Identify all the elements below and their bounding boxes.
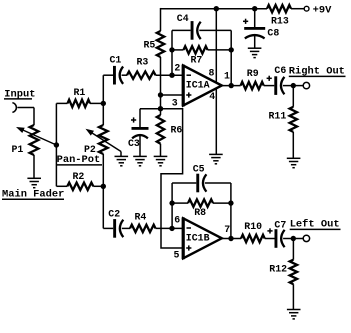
node output A junction [229, 83, 234, 88]
wire to left terminal [293, 238, 303, 240]
wire R6 top [160, 109, 162, 115]
wire P2 wiper stub [120, 152, 122, 157]
resistor R13 [267, 5, 291, 12]
svg-text:+9V: +9V [313, 5, 332, 17]
label C6 plus [267, 77, 272, 79]
resistor R6 [157, 115, 164, 144]
wire R5 bottom [160, 57, 162, 95]
ground P1 [27, 178, 41, 187]
node output B junction [228, 236, 233, 241]
wire feedback left B [171, 183, 173, 228]
wiper P2 arrow [91, 132, 121, 151]
resistor R3 [127, 72, 156, 79]
wire C3 bottom [139, 134, 141, 156]
resistor R1 [68, 100, 91, 107]
svg-text:7: 7 [224, 224, 230, 235]
wire R6 bottom [160, 144, 162, 157]
node left out junction [291, 236, 296, 241]
wire C2-R4 [122, 227, 130, 229]
wire R7 right [208, 49, 232, 51]
wire feedback right B [230, 183, 232, 239]
svg-text:R4: R4 [135, 212, 147, 223]
capacitor C3 [132, 127, 149, 130]
wire pin3 [161, 94, 184, 96]
wire C4 right [199, 29, 231, 31]
resistor R5 [157, 31, 164, 57]
wiper P1 arrow [22, 130, 57, 146]
wire to right terminal [293, 85, 303, 87]
svg-text:8: 8 [209, 67, 215, 78]
node pin3 junction [158, 92, 163, 97]
node rail-C8 junction [252, 6, 257, 11]
svg-text:R13: R13 [271, 16, 289, 27]
terminal Right Out [303, 82, 309, 88]
node P1 wiper junction [54, 142, 59, 147]
wire pin6 [156, 227, 184, 229]
svg-text:R1: R1 [74, 87, 86, 98]
node rail-V+ junction [214, 6, 219, 11]
wire C8 bottom [254, 34, 256, 48]
wire C5 left [172, 182, 196, 184]
wire pan bus upper [102, 75, 104, 125]
wire R12 bottom [292, 284, 294, 309]
svg-text:4: 4 [209, 91, 215, 102]
wire C3 link [140, 108, 161, 110]
wire R9-C6 [264, 85, 275, 87]
capacitor C2 [113, 219, 116, 238]
resistor R12 [290, 260, 297, 285]
wire feedback right A [230, 30, 232, 85]
op-amp IC1B [183, 218, 222, 258]
ground C8 [248, 48, 262, 57]
node pin2 junction [169, 73, 174, 78]
potentiometer P2 [99, 125, 108, 154]
resistor R8 [188, 199, 213, 206]
ground P2 wiper [115, 156, 129, 165]
capacitor C8 [244, 27, 265, 30]
resistor R10 [241, 235, 265, 242]
svg-text:R2: R2 [73, 171, 85, 182]
svg-text:R12: R12 [269, 264, 287, 275]
wire R5 top [160, 8, 162, 31]
wire output B [222, 238, 241, 240]
wire R12 top [292, 239, 294, 260]
svg-text:C4: C4 [177, 13, 189, 24]
wire C1-R3 [122, 74, 127, 76]
ground R12 [287, 310, 301, 319]
svg-text:3: 3 [172, 98, 178, 109]
label C7 plus [267, 230, 272, 232]
wire fader bus [55, 103, 57, 186]
svg-text:C2: C2 [108, 208, 120, 219]
resistor R7 [184, 46, 208, 53]
wire R8 right [213, 202, 231, 204]
wire pin4 V- [215, 89, 217, 155]
wire bias node [160, 95, 162, 109]
wire R1 right [90, 102, 103, 104]
node R7 right [229, 47, 234, 52]
capacitor C4 [191, 21, 194, 40]
wire C2 left [103, 227, 113, 229]
resistor R11 [290, 107, 297, 132]
svg-text:C6: C6 [274, 65, 286, 76]
svg-text:C7: C7 [274, 220, 286, 231]
op-amp IC1A [183, 66, 222, 106]
node C3-R6 junction [158, 106, 163, 111]
wire R7 left [172, 49, 184, 51]
wire pin2 [156, 74, 184, 76]
wire +9V rail [161, 8, 268, 10]
node R2-P2 junction [101, 184, 106, 189]
wire C4 left [172, 29, 191, 31]
capacitor C5 [196, 174, 199, 193]
wire C6 right [283, 85, 293, 87]
wire pan bus lower [102, 154, 104, 228]
ground R11 [287, 158, 301, 167]
svg-text:1: 1 [224, 71, 230, 82]
wire R2 right [93, 185, 103, 187]
svg-text:C8: C8 [267, 28, 279, 39]
terminal +9V [304, 6, 309, 11]
wire R8 left [172, 202, 188, 204]
ground pin4 [209, 154, 223, 163]
svg-text:5: 5 [174, 249, 180, 260]
label C8 plus [243, 20, 248, 22]
wire R11 top [292, 86, 294, 107]
wire C5 right [205, 182, 231, 184]
wire R1 left [56, 102, 67, 104]
wire pin8 V+ [215, 9, 217, 83]
svg-text:R3: R3 [137, 57, 149, 68]
node R8 left [169, 200, 174, 205]
resistor R2 [67, 183, 93, 190]
wire feedback left A [171, 30, 173, 75]
capacitor C7 [275, 229, 278, 248]
svg-text:R9: R9 [247, 68, 259, 79]
resistor R9 [241, 82, 264, 89]
wire P1 bottom [33, 155, 35, 178]
ground R6 [154, 156, 168, 165]
capacitor C6 [274, 76, 277, 95]
label C3 plus [131, 119, 136, 121]
svg-text:R10: R10 [244, 221, 262, 232]
svg-text:R6: R6 [171, 125, 183, 136]
resistor R4 [130, 225, 156, 232]
svg-text:R7: R7 [191, 55, 203, 66]
potentiometer P1 [30, 125, 39, 155]
wire jack to P1 [17, 107, 34, 109]
label IC1A plus [186, 94, 191, 96]
capacitor C1 [113, 66, 116, 85]
svg-text:IC1A: IC1A [186, 80, 210, 91]
node R1-P2 junction [101, 101, 106, 106]
svg-text:R11: R11 [269, 111, 287, 122]
svg-text:C3: C3 [128, 138, 140, 149]
svg-text:6: 6 [174, 214, 180, 225]
node R8 right [228, 200, 233, 205]
wire output A [222, 85, 241, 87]
wire C7 right [283, 238, 293, 240]
svg-text:IC1B: IC1B [186, 232, 210, 243]
wire C3 top [139, 109, 141, 128]
svg-text:C1: C1 [110, 55, 122, 66]
svg-text:C5: C5 [193, 163, 205, 174]
node pin6 junction [169, 226, 174, 231]
terminal Left Out [303, 235, 309, 241]
wire bias detour [161, 109, 184, 248]
wire R11 bottom [292, 132, 294, 158]
svg-text:R5: R5 [144, 40, 156, 51]
wire R2 left [56, 185, 67, 187]
jack input [12, 103, 16, 113]
label IC1B minus [187, 227, 192, 229]
svg-text:P1: P1 [12, 144, 24, 155]
wire R10-C7 [265, 238, 275, 240]
wire C1 left [103, 74, 113, 76]
node R7 left [169, 47, 174, 52]
svg-text:R8: R8 [194, 207, 206, 218]
node right out junction [291, 83, 296, 88]
svg-text:2: 2 [174, 63, 180, 74]
label IC1B plus [186, 247, 191, 249]
ground C3 [133, 156, 147, 165]
label IC1A minus [187, 74, 192, 76]
wire C8 top [254, 9, 256, 28]
